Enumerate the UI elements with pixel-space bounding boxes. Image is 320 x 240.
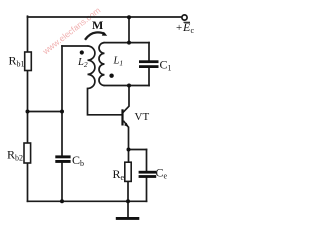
resistor Rb1 bbox=[25, 52, 32, 71]
wire Ce branch bbox=[146, 150, 148, 202]
capacitor C1 plates bbox=[139, 60, 159, 63]
wire tank right side / C1 leads bbox=[148, 43, 150, 86]
svg-text:c: c bbox=[191, 26, 195, 35]
wire emitter lead down bbox=[128, 128, 130, 150]
svg-text:Ce: Ce bbox=[156, 166, 168, 181]
wire left rail bbox=[27, 16, 29, 201]
wire tank feed from top rail bbox=[128, 17, 130, 43]
wire collector lead bbox=[123, 86, 129, 113]
wire Cb branch vertical bbox=[61, 46, 63, 201]
wire top rail bbox=[28, 16, 182, 18]
transistor VT base bar bbox=[121, 109, 123, 125]
ground stem bbox=[127, 201, 129, 217]
svg-text:L2: L2 bbox=[77, 57, 88, 69]
wire L2 bottom lead to base bbox=[88, 89, 122, 115]
node tank top junction bbox=[127, 41, 131, 45]
node emitter junction bbox=[127, 148, 131, 152]
ground bar bbox=[116, 217, 140, 220]
node bottom ground junction bbox=[126, 199, 130, 203]
svg-text:C1: C1 bbox=[160, 58, 172, 73]
node bias left junction bbox=[26, 110, 30, 114]
inductor L2 coil bbox=[88, 46, 95, 89]
wire Re leads bbox=[127, 150, 130, 202]
wire bias (Rb node to Cb node) bbox=[28, 111, 63, 113]
svg-text:Re: Re bbox=[113, 167, 125, 182]
inductor L1 coil bbox=[99, 43, 105, 86]
watermark www.elecfans.com bbox=[41, 0, 120, 56]
inductor L1 polarity dot bbox=[109, 74, 113, 78]
node bottom Cb junction bbox=[60, 199, 64, 203]
resistor Re bbox=[125, 162, 131, 181]
svg-text:M: M bbox=[92, 18, 103, 32]
svg-text:Rb2: Rb2 bbox=[7, 148, 23, 163]
svg-text:VT: VT bbox=[135, 111, 150, 123]
mutual coupling arrow M bbox=[85, 32, 105, 39]
wire emitter node to Ce branch bbox=[129, 149, 147, 151]
node bias right junction bbox=[60, 110, 64, 114]
svg-text:Cb: Cb bbox=[72, 153, 84, 168]
transistor VT emitter diagonal bbox=[123, 121, 128, 128]
capacitor Ce plates bbox=[139, 171, 157, 174]
svg-text:Rb1: Rb1 bbox=[9, 54, 25, 69]
wire bottom rail bbox=[28, 200, 147, 202]
wire L2 top lead bbox=[62, 45, 88, 47]
capacitor Cb plates bbox=[55, 155, 70, 158]
svg-text:+: + bbox=[176, 22, 182, 34]
resistor Rb2 bbox=[24, 143, 31, 163]
svg-text:L1: L1 bbox=[113, 56, 124, 68]
transistor VT emitter arrow bbox=[124, 123, 129, 128]
wire tank top side bbox=[105, 42, 150, 44]
wire tank bottom side bbox=[105, 85, 150, 87]
supply terminal +Ec bbox=[182, 15, 187, 20]
inductor L2 polarity dot bbox=[80, 50, 84, 54]
node top feed junction bbox=[127, 15, 131, 19]
node tank bottom junction bbox=[127, 84, 131, 88]
